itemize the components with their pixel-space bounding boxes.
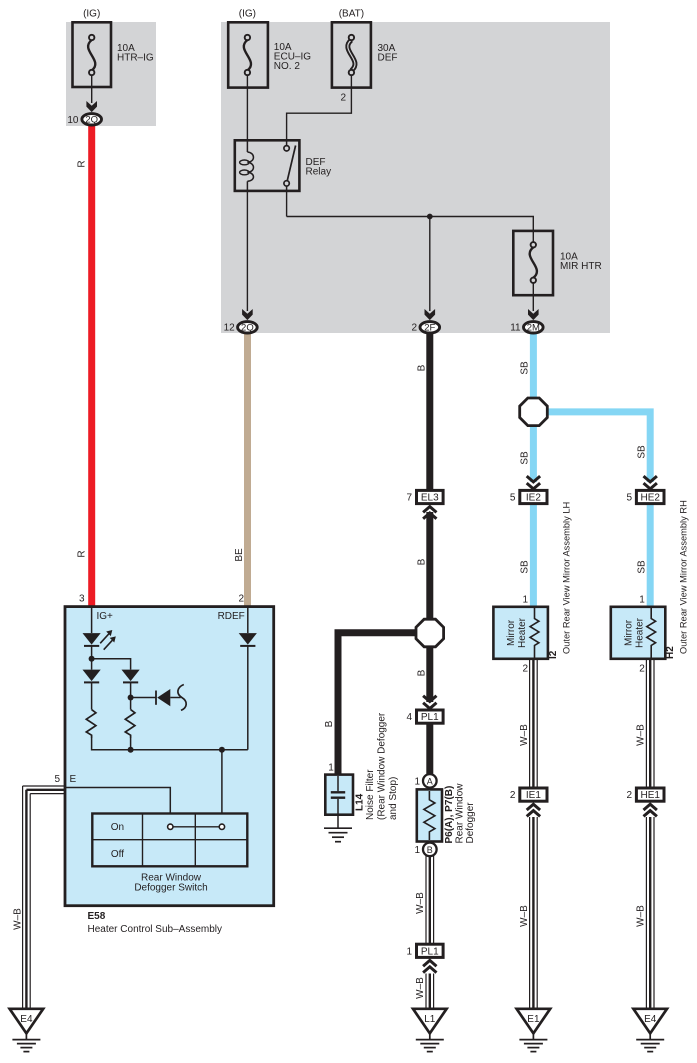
svg-text:12: 12 <box>224 323 236 334</box>
svg-text:A: A <box>427 776 433 786</box>
wire W-B from mirror heater I2 pin2 to IE1 <box>530 658 538 789</box>
diode D2 (left) <box>83 670 101 683</box>
connector oval 2Q (pin 12) <box>238 322 258 333</box>
svg-text:1: 1 <box>639 595 645 606</box>
svg-text:E58: E58 <box>88 911 106 922</box>
svg-text:E: E <box>70 774 77 785</box>
relay block background top-right <box>221 22 610 333</box>
connector circle B of rear window defogger <box>423 843 437 857</box>
octagon junction J2 (blue wire) <box>520 398 548 426</box>
wire LED1 to junction <box>91 646 93 670</box>
svg-text:1: 1 <box>522 595 528 606</box>
wire W-B from PL1 to ground L1 <box>426 974 434 1011</box>
svg-text:PL1: PL1 <box>421 712 439 723</box>
svg-text:B: B <box>417 558 428 565</box>
wire B (black) branch octagon to noise filter L14 <box>338 633 430 776</box>
svg-text:1: 1 <box>328 763 334 774</box>
connector HE2 (pin 5) <box>636 490 664 503</box>
wire junction to right branch <box>92 659 131 670</box>
wire pin E to switch <box>65 788 170 815</box>
ground L1 <box>413 1009 447 1052</box>
wire B (black) PL1 to connector A of P6 <box>426 722 433 778</box>
svg-text:W–B: W–B <box>13 908 24 930</box>
ground E4 (left) <box>10 1009 44 1052</box>
fuse HTR-IG 10A <box>73 22 112 103</box>
wire W-B from HE1 to ground E4 right <box>646 817 654 1010</box>
svg-text:MIR HTR: MIR HTR <box>560 261 602 272</box>
junction dot on node line <box>427 214 433 220</box>
svg-text:W–B: W–B <box>519 724 530 746</box>
svg-text:IE1: IE1 <box>526 790 541 801</box>
svg-text:Heater Control Sub–Assembly: Heater Control Sub–Assembly <box>88 924 223 935</box>
switch SW1 grid <box>92 814 247 867</box>
svg-text:On: On <box>111 822 124 833</box>
svg-text:SB: SB <box>636 560 647 574</box>
svg-text:HE2: HE2 <box>640 493 660 504</box>
svg-text:W–B: W–B <box>415 977 426 999</box>
svg-text:2: 2 <box>639 664 645 675</box>
svg-text:EL3: EL3 <box>421 493 439 504</box>
svg-text:(Rear Window Defogger: (Rear Window Defogger <box>377 712 388 820</box>
svg-text:R: R <box>77 550 88 557</box>
rear window defogger P6(A),P7(B) <box>417 789 442 841</box>
svg-text:Outer Rear View Mirror Assembl: Outer Rear View Mirror Assembly LH <box>562 502 572 654</box>
svg-text:HTR–IG: HTR–IG <box>117 53 154 64</box>
connector oval 2Q (pin 10) <box>82 114 102 125</box>
svg-text:B: B <box>427 845 433 855</box>
wire SB (light blue) octagon branch to HE2 <box>545 412 650 482</box>
wire from fuse DEF to DEF relay switch <box>287 75 352 141</box>
svg-text:(IG): (IG) <box>83 9 100 20</box>
svg-text:SB: SB <box>520 451 531 465</box>
svg-text:1: 1 <box>414 845 420 856</box>
wire SB (light blue) HE2 to mirror heater H2 pin1 <box>647 502 654 610</box>
svg-text:2: 2 <box>340 93 346 104</box>
mirror heater H2 (RH) <box>611 607 666 659</box>
junction dot on D3 branch <box>128 695 134 701</box>
arrow into connector 2M pin11 <box>528 309 539 320</box>
arrow into connector 2Q pin12 <box>242 309 253 320</box>
svg-text:1: 1 <box>406 946 412 957</box>
wire SB (light blue) IE2 to mirror heater I2 pin1 <box>530 502 537 610</box>
junction dot switch tap <box>219 747 225 753</box>
chevron arrows into IE2 (pointing down) <box>527 476 540 489</box>
connector HE1 (pin 2) <box>636 788 664 801</box>
chevron arrows into PL1 pin1 (pointing up) <box>423 960 436 972</box>
svg-text:SB: SB <box>636 445 647 459</box>
svg-text:and Stop): and Stop) <box>388 777 399 820</box>
svg-text:L1: L1 <box>424 1014 436 1025</box>
connector circle A of rear window defogger <box>423 774 437 788</box>
wire W-B from P6 connector B to PL1 <box>426 855 434 945</box>
svg-text:11: 11 <box>510 323 521 334</box>
svg-text:I2: I2 <box>548 650 559 659</box>
svg-text:W–B: W–B <box>415 892 426 914</box>
svg-text:2: 2 <box>522 664 528 675</box>
wire BE (beige) from 2Q pin12 to E58 pin2 <box>244 328 251 608</box>
resistor R2 <box>125 710 135 738</box>
wire B (black) 2F to EL3 <box>426 328 433 492</box>
svg-text:IE2: IE2 <box>526 493 541 504</box>
svg-text:Mirror: Mirror <box>506 619 517 646</box>
diode D5 (RDEF input) <box>239 608 257 750</box>
svg-text:Noise Filter: Noise Filter <box>365 769 376 820</box>
wire junction to diode D4 <box>131 697 156 699</box>
fuse block background top-left <box>66 22 156 126</box>
wire IG+ to LED1 <box>91 608 93 633</box>
wire W-B from E58 pin5 to ground E4 left <box>23 786 66 1010</box>
diode D3 (right) <box>122 670 140 683</box>
svg-text:B: B <box>417 364 428 371</box>
chevron arrows into HE2 (pointing down) <box>644 476 657 489</box>
chevron arrows into HE1 (pointing up) <box>644 804 657 816</box>
svg-text:W–B: W–B <box>636 724 647 746</box>
ground symbol under L14 <box>324 828 352 842</box>
svg-text:10: 10 <box>67 115 79 126</box>
wire SB (light blue) 2M to octagon junction <box>530 328 537 405</box>
relay U1 DEF Relay <box>235 140 300 192</box>
diode D4 (pointing left, with surge line) <box>156 685 186 711</box>
svg-text:1: 1 <box>414 776 420 787</box>
svg-text:P6(A), P7(B): P6(A), P7(B) <box>444 786 455 844</box>
connector IE2 (pin 5) <box>520 490 547 503</box>
svg-text:Off: Off <box>111 849 124 860</box>
junction dot below LED1 <box>89 656 95 662</box>
svg-text:3: 3 <box>79 594 85 605</box>
svg-text:SB: SB <box>520 361 531 375</box>
mirror heater I2 (LH) <box>493 607 548 659</box>
wire junction to switch <box>221 750 223 814</box>
fuse DEF 30A <box>332 22 371 87</box>
heater control sub-assembly E58 box <box>65 607 274 906</box>
chevron arrows into IE1 (pointing up) <box>527 804 540 816</box>
svg-text:RDEF: RDEF <box>218 611 245 622</box>
svg-text:BE: BE <box>234 548 245 562</box>
svg-text:Heater: Heater <box>634 617 645 648</box>
chevron arrows into EL3 (pointing up) <box>423 507 436 519</box>
connector PL1 (pin 1) <box>417 944 444 957</box>
svg-text:Defogger: Defogger <box>465 802 476 844</box>
wire W-B from mirror heater H2 pin2 to HE1 <box>646 658 654 789</box>
svg-text:2: 2 <box>412 323 418 334</box>
wire W-B from IE1 to ground E1 <box>530 817 538 1010</box>
svg-text:5: 5 <box>54 774 60 785</box>
svg-text:Relay: Relay <box>306 167 332 178</box>
svg-text:Mirror: Mirror <box>623 619 634 646</box>
svg-text:Defogger Switch: Defogger Switch <box>134 883 207 894</box>
svg-text:2: 2 <box>510 790 516 801</box>
svg-text:(BAT): (BAT) <box>339 9 364 20</box>
svg-text:2: 2 <box>626 790 632 801</box>
arrow into connector 2Q pin10 <box>86 101 97 112</box>
svg-text:NO. 2: NO. 2 <box>274 61 301 72</box>
wire junction to 2F <box>429 217 431 312</box>
wire resistors to bottom rail <box>92 738 248 750</box>
wire D3 to resistor R2 <box>130 682 132 709</box>
svg-text:DEF: DEF <box>378 53 398 64</box>
resistor R1 <box>86 710 96 738</box>
wire D2 to resistor R1 <box>91 682 93 709</box>
svg-text:5: 5 <box>626 493 632 504</box>
svg-text:5: 5 <box>510 493 516 504</box>
switch contacts (On row) <box>168 824 225 829</box>
wire fuse MIR HTR to 2M <box>532 283 534 311</box>
ground E1 <box>517 1009 551 1052</box>
connector oval 2F (pin 2) <box>420 322 440 333</box>
wire relay switch to node line <box>286 191 288 217</box>
ground E4 (right) <box>633 1009 667 1052</box>
LED D1 (indicator) <box>83 633 101 646</box>
connector PL1 (pin 4) <box>417 710 444 723</box>
svg-text:Heater: Heater <box>517 617 528 648</box>
svg-text:H2: H2 <box>665 646 676 659</box>
connector oval 2M (pin 11) <box>524 322 544 333</box>
svg-text:W–B: W–B <box>519 905 530 927</box>
svg-text:B: B <box>324 720 335 727</box>
svg-text:L14: L14 <box>355 793 366 811</box>
svg-text:(IG): (IG) <box>239 9 256 20</box>
wire from fuse ECU-IG to DEF relay coil <box>246 75 248 141</box>
chevron arrows into PL1 pin4 (pointing down) <box>423 696 436 709</box>
wire SB (light blue) octagon to IE2 <box>530 420 537 482</box>
fuse MIR HTR 10A <box>513 231 553 295</box>
svg-text:Outer Rear View Mirror Assembl: Outer Rear View Mirror Assembly RH <box>678 500 688 654</box>
LED D1 emission arrows <box>100 630 116 650</box>
svg-text:IG+: IG+ <box>97 611 114 622</box>
wire node line to MIR HTR fuse and 2F <box>287 217 534 246</box>
svg-text:R: R <box>77 160 88 167</box>
svg-text:7: 7 <box>406 493 412 504</box>
wire R (red) from 2Q pin10 to E58 pin3 <box>88 120 95 608</box>
connector EL3 (pin 7) <box>417 490 444 503</box>
octagon junction J1 (black wire) <box>416 619 444 647</box>
svg-text:E4: E4 <box>20 1014 33 1025</box>
svg-text:HE1: HE1 <box>640 790 660 801</box>
svg-text:E4: E4 <box>644 1014 657 1025</box>
junction dot R2 to rail <box>130 738 132 750</box>
svg-text:SB: SB <box>520 560 531 574</box>
svg-text:E1: E1 <box>527 1014 540 1025</box>
noise filter L14 <box>325 775 353 828</box>
svg-text:PL1: PL1 <box>421 946 439 957</box>
arrow into connector 2F pin2 <box>425 309 436 320</box>
svg-text:4: 4 <box>406 712 412 723</box>
wire B (black) octagon to PL1 <box>426 633 433 702</box>
svg-text:B: B <box>417 669 428 676</box>
connector IE1 (pin 2) <box>520 788 547 801</box>
svg-text:2: 2 <box>238 594 244 605</box>
svg-text:W–B: W–B <box>636 905 647 927</box>
wire relay coil to 2Q pin12 <box>246 191 248 311</box>
svg-text:Rear Window: Rear Window <box>455 783 466 844</box>
fuse ECU-IG NO.2 10A <box>228 22 268 87</box>
wire B (black) EL3 to octagon junction <box>426 512 433 633</box>
